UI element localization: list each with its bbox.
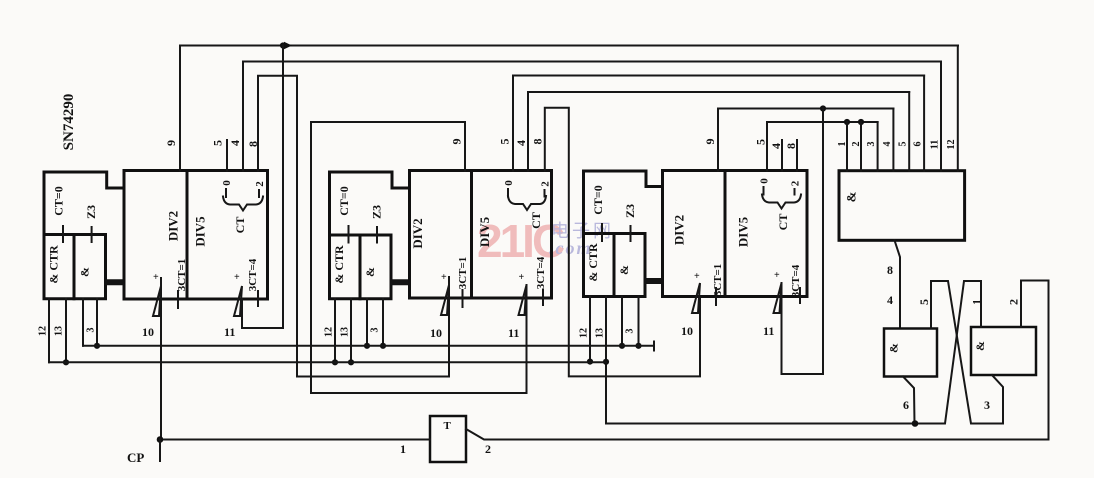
counter U3 control section outline: [584, 171, 663, 297]
counter U3 label 3CT=1: [712, 264, 724, 305]
svg-text:DIV5: DIV5: [193, 216, 208, 247]
wire U1 pin5 stub: [226, 140, 228, 171]
svg-text:6: 6: [903, 398, 909, 412]
svg-text:9: 9: [703, 139, 717, 145]
bus line y345 control gates: [83, 342, 654, 351]
svg-text:+: +: [234, 272, 240, 283]
svg-text:5: 5: [211, 140, 225, 146]
wire U2 control pin12: [334, 299, 336, 363]
svg-text:5: 5: [898, 142, 909, 147]
wire U1 QA pin9 riser: [179, 46, 181, 171]
svg-text:3: 3: [86, 328, 97, 333]
counter U1 control-to-body bar: [105, 279, 126, 285]
svg-text:4: 4: [514, 140, 528, 146]
wire U1 control pin13: [65, 299, 67, 363]
wire top feedback bus y45: [180, 45, 958, 47]
svg-text:SN74290: SN74290: [61, 94, 77, 151]
svg-text:&: &: [617, 265, 631, 275]
wire U3 pin4 stub: [781, 140, 783, 171]
svg-text:3CT=4: 3CT=4: [535, 256, 547, 289]
svg-text:+: +: [774, 270, 780, 281]
wire U3 QA pin9 riser to NAND pin4: [718, 109, 893, 171]
junction dot x847 on y122: [844, 119, 850, 125]
svg-text:13: 13: [340, 327, 351, 337]
svg-text:&: &: [844, 191, 859, 202]
svg-text:5: 5: [754, 139, 768, 145]
svg-text:Z3: Z3: [370, 205, 384, 219]
svg-text:2: 2: [254, 181, 266, 187]
wire U3 QA feedback drop to clock11: [782, 109, 824, 375]
svg-text:CT: CT: [776, 214, 790, 231]
svg-text:4: 4: [769, 143, 783, 149]
svg-text:2: 2: [790, 180, 802, 186]
junction dot x823 on y108: [820, 105, 826, 111]
wire U3 gate pin: [638, 297, 640, 346]
counter U3 label CT=0: [591, 185, 605, 241]
svg-text:+: +: [694, 271, 700, 282]
svg-text:11: 11: [763, 324, 774, 338]
svg-text:9: 9: [164, 140, 178, 146]
svg-text:+: +: [441, 272, 447, 283]
wire U1 QA to clock11 drop: [242, 46, 283, 329]
junction dot x861 on y122: [858, 119, 864, 125]
counter U3 clock triangle pin10: [692, 283, 700, 313]
svg-text:&: &: [973, 341, 987, 351]
svg-text:3: 3: [370, 328, 381, 333]
wire U3 control pin12: [589, 297, 591, 362]
counter U1 control inner divider: [73, 235, 76, 299]
wire latch feedback y423: [606, 423, 915, 425]
counter U1 output weight 2: [254, 181, 266, 197]
svg-text:&: &: [363, 267, 377, 277]
counter U2 CT brace: [508, 196, 546, 210]
counter U1 clock triangle pin11: [234, 286, 242, 316]
svg-text:3CT=1: 3CT=1: [176, 259, 188, 292]
counter U3 CT brace: [762, 195, 801, 209]
svg-text:& CTR: & CTR: [586, 243, 600, 282]
svg-text:DIV2: DIV2: [166, 211, 181, 241]
svg-text:0: 0: [503, 180, 515, 186]
counter U1 CT brace: [223, 197, 263, 211]
svg-text:Z3: Z3: [84, 205, 98, 219]
junction dot with arrow at x283: [280, 42, 286, 48]
junction dot latch output y423: [912, 420, 919, 427]
counter U3 body DIV2/DIV5: [663, 171, 808, 297]
wire U2 pin4 riser bus y92: [528, 92, 909, 171]
trigger gate U6 body: [430, 416, 466, 462]
svg-text:8: 8: [887, 263, 893, 277]
svg-text:13: 13: [54, 326, 65, 336]
wire U3 pin5 riser bus y122 to NAND pin3: [767, 122, 878, 171]
wire U2 control pin13: [350, 299, 352, 363]
counter U3 control-to-body bar: [644, 278, 664, 284]
svg-text:Z3: Z3: [623, 204, 637, 218]
counter U1 output weight 0: [221, 180, 233, 197]
wire U1 control pin12: [48, 299, 50, 363]
junction dot CP: [157, 436, 164, 443]
NAND latch U5A body: [884, 329, 937, 377]
svg-text:CT: CT: [233, 217, 247, 234]
counter U2 clock triangle pin10: [441, 285, 449, 315]
svg-text:8: 8: [784, 143, 798, 149]
svg-text:3: 3: [625, 329, 636, 334]
wire U2 gate pin: [382, 299, 384, 346]
svg-text:10: 10: [430, 326, 442, 340]
svg-text:T: T: [444, 420, 452, 432]
wire U1 clock10 drop to CP: [160, 278, 162, 440]
svg-text:DIV5: DIV5: [477, 216, 492, 247]
wire U1 gate pin: [96, 299, 98, 346]
svg-text:0: 0: [221, 180, 233, 186]
svg-text:10: 10: [142, 325, 154, 339]
svg-text:CP: CP: [127, 450, 144, 465]
counter U1 control section outline: [44, 172, 124, 299]
counter U3 output weight 2: [790, 180, 802, 194]
svg-text:&: &: [78, 267, 92, 277]
wire U1 pin4 riser and bus y61: [243, 62, 941, 171]
svg-text:10: 10: [681, 324, 693, 338]
counter U1 body DIV2/DIV5: [124, 171, 268, 300]
counter U2 control inner divider: [359, 235, 362, 299]
svg-text:CT=0: CT=0: [591, 185, 605, 215]
svg-text:9: 9: [450, 139, 464, 145]
svg-text:& CTR: & CTR: [332, 245, 346, 284]
svg-text:2: 2: [485, 442, 491, 456]
wire CP input line: [160, 439, 430, 441]
svg-text:4: 4: [882, 142, 893, 147]
svg-text:5: 5: [498, 139, 512, 145]
counter U3 output weight 0: [759, 178, 771, 195]
svg-text:1: 1: [400, 442, 406, 456]
svg-text:DIV2: DIV2: [672, 215, 687, 245]
counter U2 output weight 0: [503, 180, 515, 197]
svg-text:12: 12: [946, 140, 957, 150]
wire U2 pin8 riser cascade to U3 clock: [545, 108, 700, 377]
svg-text:DIV2: DIV2: [410, 218, 425, 248]
svg-text:11: 11: [508, 326, 519, 340]
svg-text:3CT=4: 3CT=4: [247, 258, 259, 291]
svg-text:2: 2: [1007, 299, 1021, 305]
svg-text:13: 13: [595, 328, 606, 338]
svg-text:11: 11: [930, 140, 941, 149]
counter U2 body DIV2/DIV5: [410, 171, 552, 299]
svg-text:12: 12: [579, 328, 590, 338]
svg-text:+: +: [519, 272, 525, 283]
wire U1 gate pin3: [82, 299, 84, 346]
bus line y362 control CTR: [49, 361, 606, 363]
wire U1 pin8 riser cascade to U2 clock: [258, 76, 449, 377]
counter U3 label 3CT=4: [790, 264, 802, 303]
8-input NAND U4 body: [839, 171, 965, 241]
wire NAND U4 output pin8 to latch: [895, 240, 901, 328]
svg-text:+: +: [153, 272, 159, 283]
svg-text:12: 12: [38, 326, 49, 336]
svg-text:3CT=1: 3CT=1: [457, 257, 469, 290]
wire U3 pin8 stub: [796, 140, 798, 171]
svg-text:4: 4: [887, 293, 893, 307]
counter U1 label 3CT=4: [247, 258, 259, 306]
svg-text:6: 6: [913, 142, 924, 147]
NAND U4 input pin stubs: [847, 46, 958, 171]
counter U3 label Z3: [623, 204, 637, 241]
svg-text:5: 5: [917, 299, 931, 305]
wire U2 clock10 internal drop: [448, 277, 450, 377]
svg-text:11: 11: [224, 325, 235, 339]
counter U1 label 3CT=1: [176, 259, 188, 308]
svg-text:&: &: [887, 343, 901, 353]
wire CP stub: [159, 440, 161, 462]
wire U3 gate pin3: [621, 297, 623, 346]
svg-text:8: 8: [531, 139, 545, 145]
wire U2 gate pin3: [366, 299, 368, 346]
wire latch U5A output 6 cross to U5B input 1: [903, 281, 981, 424]
svg-text:& CTR: & CTR: [47, 245, 61, 284]
svg-text:3CT=1: 3CT=1: [712, 264, 724, 297]
counter U3 control inner divider: [613, 234, 616, 297]
svg-text:12: 12: [324, 327, 335, 337]
counter U2 label CT=0: [337, 186, 351, 242]
watermark 21IC.com: [477, 215, 614, 267]
svg-text:3: 3: [866, 142, 877, 147]
counter U2 output weight 2: [540, 181, 552, 197]
svg-text:2: 2: [851, 142, 862, 147]
counter U1 label CT=0: [52, 186, 66, 242]
wire U2 QA pin9 riser and feedback loop to clock11: [311, 122, 527, 393]
counter U2 clock triangle pin11: [519, 285, 527, 315]
wire trigger U6 output line: [466, 429, 1049, 440]
counter U2 label 3CT=4: [535, 256, 547, 305]
svg-text:CT=0: CT=0: [337, 186, 351, 216]
svg-text:2: 2: [540, 181, 552, 187]
counter U3 clock triangle pin11: [774, 283, 782, 313]
counter U1 label Z3: [84, 205, 98, 242]
wire U3 control pin13 to latch feedback: [605, 297, 607, 424]
svg-text:DIV5: DIV5: [736, 216, 751, 247]
svg-text:CT: CT: [529, 212, 543, 229]
svg-text:1: 1: [837, 142, 848, 147]
counter U2 control-to-body bar: [390, 279, 411, 285]
wire latch U5B pin2 from clock line: [1021, 281, 1049, 440]
counter U1 clock triangle pin10: [153, 286, 161, 316]
svg-text:3: 3: [984, 398, 990, 412]
counter U2 label 3CT=1: [457, 257, 469, 307]
counter U2 control section outline: [330, 172, 410, 299]
svg-text:CT=0: CT=0: [52, 186, 66, 216]
counter U2 label Z3: [370, 205, 384, 243]
svg-text:4: 4: [228, 140, 242, 146]
wire U2 pin5 riser bus y75: [513, 76, 924, 171]
svg-text:0: 0: [759, 178, 771, 184]
NAND latch U5B body: [971, 327, 1036, 375]
wire latch U5B output 3 cross to U5A input 5: [931, 281, 1003, 424]
